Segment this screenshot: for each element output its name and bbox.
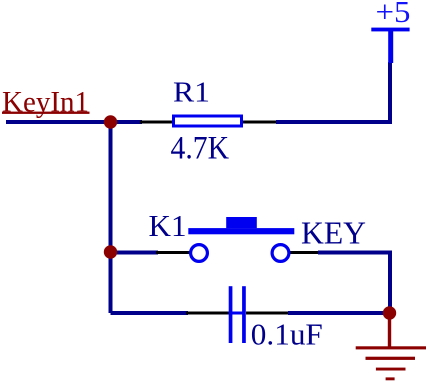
junction node A [104,115,117,128]
ground [356,313,426,380]
resistor R1 value 4.7K [171,130,230,166]
capacitor C1 value 0.1uF [251,317,323,352]
capacitor C1 pin 1 [186,312,229,315]
junction node C [383,306,396,319]
resistor R1 pin 2 [242,121,276,124]
net label KeyIn1 [2,86,90,119]
wire: switch right pin to right corner down to node C [318,253,390,314]
wire: capacitor to node C [288,311,390,315]
wire: resistor right to +5 corner [276,62,390,122]
wire: bottom rail left to capacitor [111,311,189,315]
wire: KeyIn1 horizontal into node A [6,120,142,124]
power label +5 [376,0,411,29]
svg-text:+5: +5 [376,0,411,29]
switch K1 net name KEY [301,214,366,250]
wire: vertical bus from node A down to bottom rail [109,122,113,313]
switch K1 pin 1 [156,251,190,254]
resistor R1 body [174,116,242,126]
switch K1 body [188,217,294,261]
svg-text:0.1uF: 0.1uF [251,317,323,352]
svg-text:KEY: KEY [301,214,366,250]
capacitor C1 body [229,286,246,343]
svg-text:4.7K: 4.7K [171,130,230,166]
junction node B [104,245,117,258]
wire: node B to switch left pin [111,251,159,255]
resistor R1 pin 1 [140,121,172,124]
capacitor C1 pin 2 [246,312,288,315]
power symbol +5 [371,28,409,63]
svg-text:K1: K1 [149,208,187,243]
switch K1 designator [149,208,187,243]
resistor R1 designator [173,77,210,109]
switch K1 pin 2 [289,251,318,254]
svg-text:R1: R1 [173,77,210,109]
